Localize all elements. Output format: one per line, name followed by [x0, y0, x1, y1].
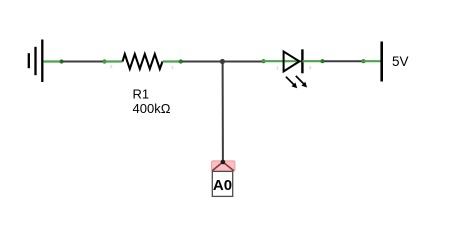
- resistor R1: [123, 54, 163, 69]
- wire ground to R1: [62, 61, 105, 63]
- wire R1 to node A: [182, 61, 222, 63]
- wire node A to D1: [222, 61, 262, 63]
- A0 connector pad (pink): [212, 161, 235, 171]
- svg-text:1: 1: [171, 65, 174, 70]
- A0 pad diagonal left: [212, 162, 223, 171]
- resistor R1 pin 2 lead: [102, 59, 122, 63]
- 5V supply pin lead: [361, 59, 380, 63]
- 5V supply bar: [380, 42, 383, 82]
- svg-text:R1: R1: [133, 87, 150, 102]
- resistor R1 pin 1 lead: [163, 59, 183, 63]
- diode D1 cathode bar: [301, 49, 303, 73]
- svg-text:5V: 5V: [392, 54, 409, 69]
- svg-text:A0: A0: [213, 177, 232, 194]
- light arrow 2: [296, 76, 307, 88]
- svg-text:2: 2: [309, 65, 312, 70]
- wire D1 to 5V: [324, 60, 362, 62]
- diode D1 pin 2 lead: [302, 59, 324, 63]
- node A (junction dot): [220, 59, 225, 64]
- A0 wire end dot: [221, 160, 226, 165]
- svg-text:1: 1: [276, 66, 279, 71]
- svg-text:400kΩ: 400kΩ: [133, 101, 171, 116]
- svg-text:2: 2: [110, 64, 113, 69]
- A0 pad diagonal right: [223, 162, 234, 171]
- light arrow 1: [286, 77, 297, 89]
- diode D1 triangle: [284, 52, 300, 72]
- wire node A down to A0: [222, 62, 224, 162]
- A0 label box: [212, 171, 232, 196]
- diode D1 pin 1 lead: [261, 59, 302, 63]
- ground pin lead: [43, 59, 63, 63]
- ground: [29, 40, 43, 83]
